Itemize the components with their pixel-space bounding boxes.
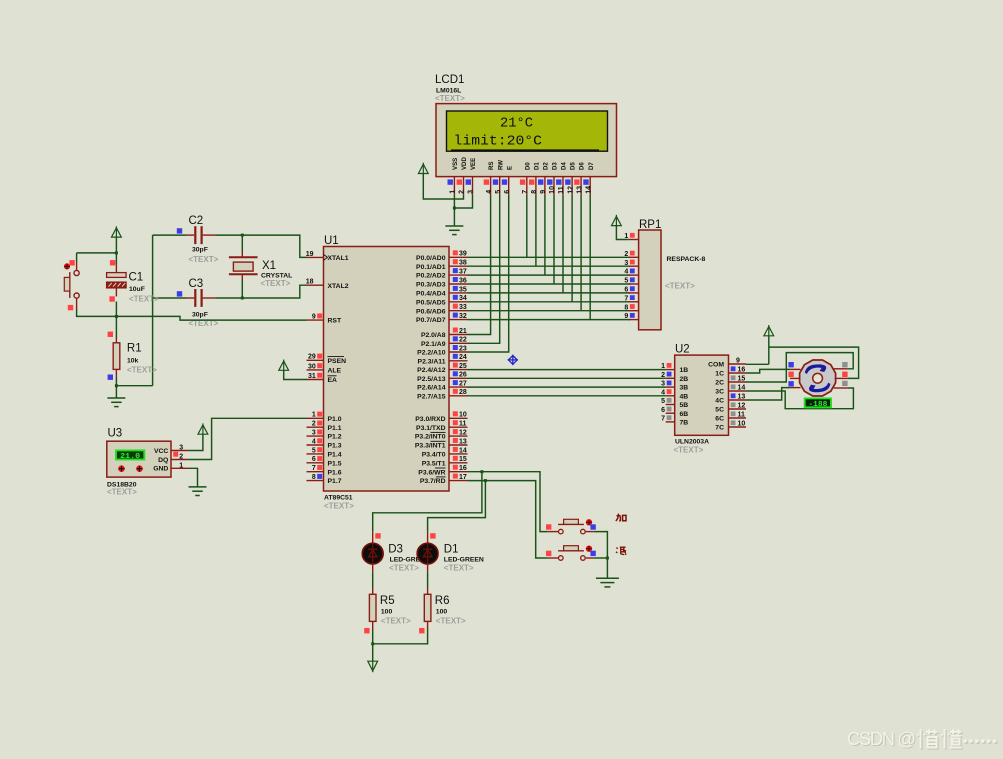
C1 top lead bbox=[115, 265, 117, 273]
R6 bottom lead bbox=[427, 621, 429, 629]
svg-text:26: 26 bbox=[459, 372, 467, 379]
U2 pin 4 (4B) bbox=[666, 395, 675, 397]
push button ADD bbox=[558, 519, 585, 534]
U2 pin 10 (7C) bbox=[729, 426, 747, 428]
svg-text:X1: X1 bbox=[262, 260, 276, 272]
svg-text:U1: U1 bbox=[324, 235, 339, 247]
svg-text:3C: 3C bbox=[715, 389, 724, 396]
svg-text:13: 13 bbox=[738, 394, 746, 401]
svg-text:-188: -188 bbox=[808, 401, 827, 409]
svg-text:18: 18 bbox=[306, 279, 314, 286]
svg-text:GND: GND bbox=[153, 466, 168, 473]
RP1 pin 3 bbox=[629, 265, 639, 267]
reset button bottom lead bbox=[76, 298, 78, 308]
C1 bottom lead bbox=[115, 288, 117, 297]
RP1 pin 8 bbox=[629, 310, 639, 312]
svg-text:2B: 2B bbox=[680, 376, 689, 383]
U1 XTAL1 pin arrow bbox=[324, 254, 328, 260]
power arrow EA bbox=[279, 360, 289, 371]
U1 pin 7 (P1.6) bbox=[307, 471, 324, 473]
C3 state square bbox=[177, 291, 182, 296]
ground arrow below R5 bbox=[368, 661, 378, 672]
svg-text:30pF: 30pF bbox=[192, 312, 208, 319]
svg-text:<TEXT>: <TEXT> bbox=[129, 295, 159, 304]
junction X1 top bbox=[241, 234, 244, 237]
wire C3 left bbox=[153, 297, 186, 299]
svg-text:P1.5: P1.5 bbox=[328, 460, 342, 467]
U1 pin 22 (P2.1/A9) bbox=[449, 342, 468, 344]
U3 temperature display bbox=[116, 450, 144, 459]
wire U1 P0.1 to RP1 pin 3 bbox=[468, 265, 631, 267]
U1 pin 13 (P3.3/INT1) bbox=[449, 444, 468, 446]
svg-text:VSS: VSS bbox=[452, 158, 459, 170]
ground below U3 bbox=[189, 487, 207, 496]
svg-text:C1: C1 bbox=[129, 272, 144, 284]
svg-text:<TEXT>: <TEXT> bbox=[389, 564, 419, 573]
wire U1 P2.5 to U2 pin2 bbox=[468, 377, 666, 379]
svg-text:P3.1/TXD: P3.1/TXD bbox=[416, 425, 446, 432]
svg-text:<TEXT>: <TEXT> bbox=[261, 279, 291, 288]
svg-text:P2.6/A14: P2.6/A14 bbox=[417, 385, 446, 392]
svg-text:1: 1 bbox=[312, 412, 316, 419]
wire LCD D5 down to P0.5 bus bbox=[571, 195, 573, 302]
svg-text:P0.1/AD1: P0.1/AD1 bbox=[416, 264, 446, 271]
svg-text:3: 3 bbox=[312, 430, 316, 437]
svg-text:COM: COM bbox=[708, 362, 724, 369]
junction P3.6 branch bbox=[480, 470, 483, 473]
svg-text:4B: 4B bbox=[680, 393, 689, 400]
svg-text:P1.7: P1.7 bbox=[328, 478, 342, 485]
svg-text:7: 7 bbox=[312, 465, 316, 472]
U1 pin 28 (P2.7/A15) bbox=[449, 395, 468, 397]
svg-text:7B: 7B bbox=[680, 420, 689, 427]
svg-text:16: 16 bbox=[738, 367, 746, 374]
wire to down arrow bbox=[372, 644, 374, 661]
svg-text:5B: 5B bbox=[680, 402, 689, 409]
wire LCD RW to U1 P2.1 bbox=[468, 195, 500, 343]
svg-text:13: 13 bbox=[576, 186, 583, 194]
svg-text:EA: EA bbox=[328, 377, 338, 384]
svg-text:limit:20°C: limit:20°C bbox=[454, 134, 543, 149]
wire button top bbox=[76, 253, 78, 262]
svg-text:12: 12 bbox=[567, 186, 574, 194]
wire U1 P2.7 to U2 pin4 bbox=[468, 395, 666, 397]
svg-text:35: 35 bbox=[459, 286, 467, 293]
svg-text:8: 8 bbox=[531, 190, 538, 194]
svg-text:1: 1 bbox=[624, 233, 628, 240]
R6 state square bbox=[419, 628, 424, 633]
origin marker crosshair bbox=[508, 355, 518, 365]
resistor R1 bbox=[113, 343, 120, 370]
svg-text:P3.0/RXD: P3.0/RXD bbox=[415, 416, 445, 423]
RP1 pin 2 bbox=[629, 256, 639, 258]
U1 pin 35 (P0.4/AD4) bbox=[449, 292, 468, 294]
capacitor C2 bbox=[195, 226, 201, 244]
svg-text:R6: R6 bbox=[435, 595, 450, 607]
svg-text:4C: 4C bbox=[715, 398, 724, 405]
svg-text:5: 5 bbox=[624, 278, 628, 285]
wire LCD E to U1 P2.2 bbox=[468, 195, 509, 352]
svg-text:P0.3/AD3: P0.3/AD3 bbox=[416, 282, 446, 289]
svg-text:21.0: 21.0 bbox=[120, 453, 140, 461]
svg-text:6: 6 bbox=[661, 407, 665, 414]
svg-text:XTAL1: XTAL1 bbox=[328, 255, 349, 262]
svg-text:1: 1 bbox=[661, 363, 665, 370]
U2 pin 11 (6C) bbox=[729, 417, 747, 419]
wire U1 P0.2 to RP1 pin 4 bbox=[468, 274, 631, 276]
wire EA to power bbox=[284, 370, 307, 379]
D3 state square bbox=[375, 533, 380, 538]
svg-text:VCC: VCC bbox=[154, 448, 168, 455]
U1 pin 27 (P2.6/A14) bbox=[449, 386, 468, 388]
svg-text:P1.6: P1.6 bbox=[328, 469, 342, 476]
U1 pin 29 (PSEN) bbox=[307, 359, 324, 361]
svg-text:U2: U2 bbox=[675, 344, 690, 356]
U1 pin 17 (P3.7/RD) bbox=[449, 480, 468, 482]
wire U2 2C to motor R1 bbox=[746, 353, 853, 382]
U3 up button bbox=[118, 465, 125, 472]
svg-text:100: 100 bbox=[381, 609, 393, 616]
D3 bottom lead bbox=[372, 564, 374, 572]
RP1 pin 1 bbox=[629, 239, 639, 241]
svg-text:39: 39 bbox=[459, 251, 467, 258]
motor speed display bbox=[805, 398, 831, 407]
svg-text:6: 6 bbox=[312, 456, 316, 463]
svg-text:10k: 10k bbox=[127, 358, 139, 365]
wire D1 to R6 bbox=[427, 572, 429, 588]
junction VSS/VEE bbox=[453, 207, 456, 210]
watermark CSDN text bbox=[847, 728, 917, 750]
svg-text:<TEXT>: <TEXT> bbox=[674, 446, 704, 455]
svg-text:ALE: ALE bbox=[328, 368, 342, 375]
U3 pin 3 (VCC) bbox=[171, 450, 189, 452]
svg-text:<TEXT>: <TEXT> bbox=[324, 502, 354, 511]
svg-text:6: 6 bbox=[624, 287, 628, 294]
svg-text:P2.4/A12: P2.4/A12 bbox=[417, 367, 446, 374]
D1 state square bbox=[430, 533, 435, 538]
U1 pin 1 (P1.0) bbox=[307, 417, 324, 419]
svg-text:RP1: RP1 bbox=[639, 219, 661, 231]
svg-text:<TEXT>: <TEXT> bbox=[436, 617, 466, 626]
C2 state square bbox=[177, 228, 182, 233]
wire button sub to ground bbox=[594, 557, 608, 559]
wire U2 3C to motor R3 bbox=[746, 388, 853, 409]
svg-text:1: 1 bbox=[450, 190, 457, 194]
ground below LCD bbox=[445, 226, 463, 235]
svg-text:6C: 6C bbox=[715, 416, 724, 423]
wire D3 to R5 bbox=[372, 572, 374, 588]
svg-text:CSDN @: CSDN @ bbox=[847, 728, 916, 749]
svg-text:DQ: DQ bbox=[158, 457, 168, 464]
svg-text:5: 5 bbox=[495, 190, 502, 194]
svg-text:3: 3 bbox=[624, 260, 628, 267]
svg-text:<TEXT>: <TEXT> bbox=[381, 617, 411, 626]
U1 pin 25 (P2.4/A12) bbox=[449, 369, 468, 371]
wire U1 P0.5 to RP1 pin 7 bbox=[468, 301, 631, 303]
svg-text:8: 8 bbox=[312, 474, 316, 481]
wire VCC down to C1 bbox=[115, 237, 117, 265]
capacitor C1 10uF bbox=[107, 273, 127, 288]
svg-text:<TEXT>: <TEXT> bbox=[435, 94, 465, 103]
U1 pin 26 (P2.5/A13) bbox=[449, 377, 468, 379]
wire U2 4C to motor L3 bbox=[746, 388, 790, 400]
svg-text:D4: D4 bbox=[561, 162, 568, 170]
svg-text:E: E bbox=[506, 166, 513, 170]
wire LCD D2 down to P0.2 bus bbox=[544, 195, 546, 275]
svg-text:VDD: VDD bbox=[461, 157, 468, 170]
R5 top lead bbox=[372, 588, 374, 594]
wire U1 P0.0 to RP1 pin 2 bbox=[468, 256, 631, 258]
svg-text:P2.0/A8: P2.0/A8 bbox=[421, 332, 446, 339]
RP1 pin 5 bbox=[629, 283, 639, 285]
svg-text:32: 32 bbox=[459, 313, 467, 320]
push button RESET bbox=[64, 270, 79, 298]
driver U2 ULN2003A body bbox=[675, 355, 729, 435]
svg-text:27: 27 bbox=[459, 381, 467, 388]
svg-text:D2: D2 bbox=[543, 162, 550, 170]
U1 pin 11 (P3.1/TXD) bbox=[449, 426, 468, 428]
svg-text:36: 36 bbox=[459, 277, 467, 284]
U1 pin 37 (P0.2/AD2) bbox=[449, 274, 468, 276]
LED D3 top lead bbox=[372, 531, 374, 543]
wire U1 P3.6 to button add bbox=[468, 472, 548, 532]
svg-text:XTAL2: XTAL2 bbox=[328, 283, 349, 290]
op-amp U1 body AT89C51 bbox=[324, 247, 450, 492]
svg-text:8: 8 bbox=[624, 304, 628, 311]
svg-text:30pF: 30pF bbox=[192, 247, 208, 254]
U1 pin 14 (P3.4/T0) bbox=[449, 453, 468, 455]
wire U1 P3.7 to button sub bbox=[468, 481, 548, 558]
crystal X1 bbox=[229, 257, 258, 274]
resistor pack RP1 body bbox=[639, 230, 661, 330]
U1 pin 23 (P2.2/A10) bbox=[449, 351, 468, 353]
wire U2 1C to motor L1 bbox=[746, 369, 790, 373]
wire U1 P0.4 to RP1 pin 6 bbox=[468, 292, 631, 294]
svg-text:6B: 6B bbox=[680, 411, 689, 418]
svg-text:3: 3 bbox=[179, 445, 183, 452]
svg-text:D6: D6 bbox=[579, 162, 586, 170]
svg-text:<TEXT>: <TEXT> bbox=[189, 255, 219, 264]
U2 pin 1 (1B) bbox=[666, 369, 675, 371]
power arrow reset VCC bbox=[112, 226, 122, 237]
resistor R6 bbox=[424, 594, 431, 621]
U2 pin 12 (5C) bbox=[729, 408, 747, 410]
svg-text:21: 21 bbox=[459, 328, 467, 335]
wire power to motor right common bbox=[769, 347, 859, 378]
U1 pin 31 (EA) bbox=[307, 379, 324, 381]
reset button state squares bbox=[69, 260, 74, 265]
U1 pin 16 (P3.6/WR) bbox=[449, 471, 468, 473]
wire U3 GND to ground bbox=[189, 468, 198, 487]
svg-text:3: 3 bbox=[468, 190, 475, 194]
svg-text:P2.1/A9: P2.1/A9 bbox=[421, 341, 446, 348]
svg-text:U3: U3 bbox=[108, 428, 123, 440]
U1 pin 9 (RST) bbox=[307, 319, 324, 321]
R5 bottom lead bbox=[372, 621, 374, 629]
wire U2 COM to power stem bbox=[746, 363, 769, 365]
junction RST node bbox=[115, 315, 118, 318]
watermark Chinese glyphs bbox=[918, 730, 963, 750]
svg-text:23: 23 bbox=[459, 345, 467, 352]
wire caps common to ground bbox=[116, 385, 152, 387]
svg-text:<TEXT>: <TEXT> bbox=[665, 282, 695, 291]
RP1 pin 7 bbox=[629, 301, 639, 303]
svg-text:D1: D1 bbox=[444, 544, 459, 556]
svg-text:R1: R1 bbox=[127, 343, 142, 355]
wire VEE to VSS bbox=[454, 195, 472, 208]
svg-text:P1.2: P1.2 bbox=[328, 434, 342, 441]
LCD screen bbox=[447, 111, 608, 151]
svg-text:VEE: VEE bbox=[470, 158, 477, 170]
svg-text:15: 15 bbox=[459, 456, 467, 463]
R1 bottom lead bbox=[115, 369, 117, 377]
wire LCD D7 down to P0.7 bus bbox=[589, 195, 591, 320]
svg-text:7: 7 bbox=[624, 295, 628, 302]
wire LCD D0 down to P0.0 bus bbox=[526, 195, 528, 257]
svg-text:3B: 3B bbox=[680, 385, 689, 392]
svg-text:2: 2 bbox=[312, 421, 316, 428]
wire LCD D6 down to P0.6 bus bbox=[580, 195, 582, 311]
svg-text:7: 7 bbox=[522, 190, 529, 194]
svg-text:11: 11 bbox=[459, 421, 467, 428]
resistor R5 bbox=[369, 594, 376, 621]
svg-text:1: 1 bbox=[179, 462, 183, 469]
U1 pin 34 (P0.5/AD5) bbox=[449, 301, 468, 303]
U1 pin 2 (P1.1) bbox=[307, 426, 324, 428]
wire C1 to R1 bbox=[115, 302, 117, 339]
reset button top lead bbox=[76, 262, 78, 270]
svg-text:14: 14 bbox=[738, 385, 746, 392]
U1 pin 8 (P1.7) bbox=[307, 480, 324, 482]
svg-text:12: 12 bbox=[459, 430, 467, 437]
svg-text:P2.2/A10: P2.2/A10 bbox=[417, 350, 446, 357]
RP1 pin 9 bbox=[629, 319, 639, 321]
power arrow near LCD VDD bbox=[418, 163, 428, 174]
U2 pin 7 (7B) bbox=[666, 421, 675, 423]
power arrow motor VCC bbox=[764, 325, 774, 336]
sensor U3 DS18B20 body bbox=[107, 441, 171, 477]
reset button operate marker bbox=[64, 263, 70, 269]
svg-text:31: 31 bbox=[308, 373, 316, 380]
svg-text:<TEXT>: <TEXT> bbox=[107, 488, 137, 497]
svg-text:12: 12 bbox=[738, 403, 746, 410]
R1 top lead bbox=[115, 338, 117, 343]
svg-text:P2.7/A15: P2.7/A15 bbox=[417, 393, 446, 400]
ground below R1 bbox=[107, 398, 125, 407]
wire power stem motor bbox=[768, 336, 770, 365]
U3 pin2 state square bbox=[173, 452, 178, 457]
wire U1 P0.7 to RP1 pin 9 bbox=[468, 319, 631, 321]
svg-text:11: 11 bbox=[738, 412, 746, 419]
wire P3.7 branch to LED D1 bbox=[428, 481, 486, 532]
wire X1 top branch bbox=[241, 235, 243, 251]
svg-text:7C: 7C bbox=[715, 425, 724, 432]
svg-text:RW: RW bbox=[497, 160, 504, 170]
wire C2 left bbox=[153, 234, 186, 236]
svg-text:2: 2 bbox=[624, 251, 628, 258]
LED D3 bbox=[362, 543, 383, 564]
U3 pin 1 (GND) bbox=[171, 467, 189, 469]
svg-text:100: 100 bbox=[436, 609, 448, 616]
svg-text:LED-GREEN: LED-GREEN bbox=[444, 557, 484, 564]
motor shaft bbox=[813, 373, 823, 383]
svg-text:3: 3 bbox=[661, 381, 665, 388]
label sub (Chinese jian) bbox=[616, 547, 627, 555]
U1 pin 5 (P1.4) bbox=[307, 453, 324, 455]
RP1 pin 6 bbox=[629, 292, 639, 294]
motor leads bbox=[790, 369, 848, 388]
svg-text:P0.2/AD2: P0.2/AD2 bbox=[416, 273, 446, 280]
svg-text:P1.1: P1.1 bbox=[328, 425, 342, 432]
U1 pin 6 (P1.5) bbox=[307, 462, 324, 464]
svg-text:33: 33 bbox=[459, 304, 467, 311]
wire LCD RS to U1 P2.0 bbox=[468, 195, 491, 335]
junction P3.7 branch bbox=[484, 479, 487, 482]
U1 pin 4 (P1.3) bbox=[307, 444, 324, 446]
wire LCD D1 down to P0.1 bus bbox=[535, 195, 537, 266]
U1 pin 24 (P2.3/A11) bbox=[449, 360, 468, 362]
U2 pin 6 (6B) bbox=[666, 412, 675, 414]
svg-text:D7: D7 bbox=[588, 162, 595, 170]
U2 pin 13 (4C) bbox=[729, 399, 747, 401]
svg-text:C2: C2 bbox=[189, 215, 204, 227]
svg-text:11: 11 bbox=[558, 186, 565, 194]
svg-text:P0.7/AD7: P0.7/AD7 bbox=[416, 317, 446, 324]
svg-text:P0.6/AD6: P0.6/AD6 bbox=[416, 308, 446, 315]
svg-text:D3: D3 bbox=[388, 544, 403, 556]
svg-text:<TEXT>: <TEXT> bbox=[127, 366, 157, 375]
wire LCD D3 down to P0.3 bus bbox=[553, 195, 555, 284]
capacitor C3 bbox=[195, 289, 201, 307]
svg-text:37: 37 bbox=[459, 269, 467, 276]
U1 pin 36 (P0.3/AD3) bbox=[449, 283, 468, 285]
wire button add to ground bbox=[594, 532, 608, 579]
svg-text:30: 30 bbox=[308, 363, 316, 370]
svg-text:5: 5 bbox=[661, 398, 665, 405]
svg-text:P3.7/RD: P3.7/RD bbox=[420, 478, 446, 485]
svg-text:RS: RS bbox=[488, 162, 495, 170]
svg-text:17: 17 bbox=[459, 474, 467, 481]
U1 pin 10 (P3.0/RXD) bbox=[449, 417, 468, 419]
svg-text:16: 16 bbox=[459, 465, 467, 472]
junction X1 bottom bbox=[241, 297, 244, 300]
wire VSS to ground bbox=[453, 195, 455, 226]
wire button top to VCC bbox=[77, 252, 117, 254]
U1 pin 19 (XTAL1) bbox=[307, 256, 324, 258]
R1 state squares bbox=[108, 332, 113, 337]
svg-text:C3: C3 bbox=[189, 278, 204, 290]
power arrow RP1 bbox=[612, 215, 622, 226]
ground below buttons bbox=[596, 578, 619, 587]
svg-text:P1.0: P1.0 bbox=[328, 416, 342, 423]
U1 pin 3 (P1.2) bbox=[307, 435, 324, 437]
wire crystal caps common vertical bbox=[152, 235, 154, 386]
svg-text:25: 25 bbox=[459, 363, 467, 370]
wire RP1 pin1 to power bbox=[616, 226, 628, 240]
svg-text:10: 10 bbox=[738, 421, 746, 428]
wire R1 to ground bbox=[115, 377, 117, 398]
U2 pin 5 (5B) bbox=[666, 404, 675, 406]
X1 top lead bbox=[241, 251, 243, 257]
U2 pin 15 (2C) bbox=[729, 381, 747, 383]
svg-text:ULN2003A: ULN2003A bbox=[675, 439, 709, 446]
svg-text:10: 10 bbox=[549, 186, 556, 194]
svg-text:6: 6 bbox=[504, 190, 511, 194]
U3 pin 2 (DQ) bbox=[171, 459, 189, 461]
svg-text:P3.2/INT0: P3.2/INT0 bbox=[415, 434, 446, 441]
svg-text:1B: 1B bbox=[680, 367, 689, 374]
svg-text:4: 4 bbox=[486, 190, 493, 194]
